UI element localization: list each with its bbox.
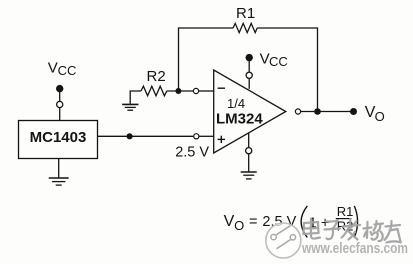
wire output [301, 111, 354, 113]
svg-text:R1: R1 [337, 204, 354, 219]
formula VO = 2.5 V (1 + R1/R2) [224, 204, 358, 238]
ground (MC1403) [49, 178, 69, 185]
wire to non-inverting input [199, 135, 214, 137]
pin circle non-inverting input [194, 134, 199, 139]
svg-text:=: = [249, 214, 257, 230]
IC MC1403 [19, 121, 98, 159]
wire MC1403 to ground [58, 159, 60, 178]
svg-text:MC1403: MC1403 [30, 129, 87, 146]
junction node (R2 / feedback) [175, 88, 181, 94]
wire 2.5V reference [97, 135, 193, 137]
wire to inverting input [199, 90, 214, 92]
junction node (output / feedback) [314, 108, 321, 115]
watermark text dianzi fashaoyou [304, 219, 401, 243]
resistor R2 [141, 86, 167, 96]
junction node (2.5V line) [127, 133, 133, 139]
op-amp U1 LM324 [214, 70, 286, 153]
pin negative supply stub [246, 133, 252, 171]
svg-text:R1: R1 [236, 5, 255, 22]
svg-text:1/4: 1/4 [227, 96, 245, 111]
svg-text:O: O [234, 218, 244, 233]
resistor R1 [233, 23, 257, 32]
svg-text:2.5 V: 2.5 V [175, 144, 209, 160]
char fa [342, 219, 361, 240]
pin circle inverting input [193, 88, 198, 93]
label VO [365, 104, 385, 124]
char zi [325, 221, 341, 240]
wire feedback right [257, 28, 317, 112]
svg-text:CC: CC [58, 63, 77, 78]
char you [385, 221, 401, 243]
pin circle output [295, 109, 300, 114]
svg-text:V: V [224, 213, 235, 230]
svg-text:www.elecfans.com: www.elecfans.com [301, 241, 408, 257]
char dian [304, 219, 321, 239]
wire feedback top [179, 28, 234, 91]
svg-text:V: V [48, 59, 58, 76]
char shao [364, 221, 384, 241]
svg-text:LM324: LM324 [216, 111, 263, 128]
svg-text:O: O [375, 109, 385, 124]
node VO terminal [350, 108, 357, 115]
watermark logo circle [266, 223, 301, 258]
svg-text:R2: R2 [147, 68, 166, 85]
power VCC (left) [48, 59, 77, 120]
ground (op-amp) [241, 172, 257, 179]
wire R2 to node [167, 90, 193, 92]
power VCC (op-amp supply) [246, 50, 288, 89]
ground (R2) [122, 104, 138, 110]
svg-text:CC: CC [269, 54, 288, 69]
wire R2 left lead [130, 91, 141, 104]
